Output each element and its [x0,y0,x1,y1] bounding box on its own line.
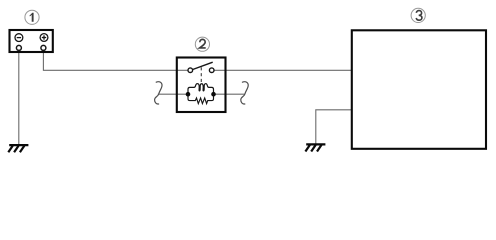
relay label 2 [195,37,209,51]
relay switch contact right [209,68,214,73]
wire relay switch right to component 3 [214,69,351,71]
wire into relay switch left [177,69,189,71]
component 3 box [352,30,486,149]
wire component 3 to ground [316,110,351,144]
wire relay coil right stub [214,93,245,95]
relay coil junction left [186,92,191,97]
relay box [177,58,226,113]
relay armature dashed link [200,67,202,84]
wire battery negative terminal to ground [18,50,20,144]
battery label 1 [25,10,39,24]
battery negative terminal pin [16,45,21,50]
relay switch blade [193,62,213,69]
battery positive symbol [40,34,48,42]
connector squiggle left [155,82,162,104]
connector squiggle right [241,82,248,104]
ground component 3 [305,144,325,151]
battery negative symbol [15,34,23,42]
component 3 label [411,8,425,22]
wire battery positive terminal to relay switch [43,50,176,70]
ground battery [8,145,28,152]
relay switch contact left [188,68,193,73]
battery positive terminal pin [41,45,46,50]
relay coil junction right [211,92,216,97]
wire relay coil left stub [158,93,188,95]
battery box [10,30,53,52]
relay resistor [188,94,214,103]
relay coil [188,84,214,95]
